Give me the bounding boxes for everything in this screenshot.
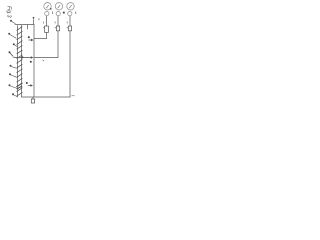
svg-text:Fig.3: Fig.3 [6, 6, 12, 18]
